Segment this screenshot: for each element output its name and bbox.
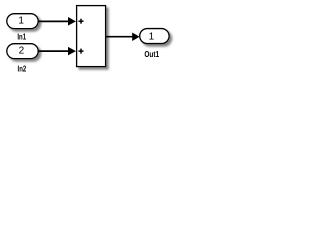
svg-text:Out1: Out1	[144, 49, 159, 59]
sum block U1	[77, 6, 106, 67]
wire from In2 to sum	[38, 50, 70, 52]
svg-text:2: 2	[19, 46, 25, 57]
outport block Out1	[140, 29, 169, 44]
svg-text:1: 1	[149, 31, 155, 42]
arrowhead at sum input 2	[68, 47, 76, 56]
inport block In2	[7, 44, 38, 59]
wire from In1 to sum	[38, 20, 70, 22]
arrowhead at sum input 1	[68, 17, 76, 26]
plus sign input 1	[79, 19, 84, 24]
background	[0, 0, 178, 82]
wire from sum to Out1	[106, 36, 133, 38]
plus sign input 2	[79, 49, 84, 54]
inport block In1	[7, 14, 38, 29]
arrowhead at Out1	[132, 33, 139, 42]
svg-text:In2: In2	[18, 65, 27, 74]
svg-text:In1: In1	[17, 33, 26, 42]
svg-text:1: 1	[18, 16, 24, 27]
